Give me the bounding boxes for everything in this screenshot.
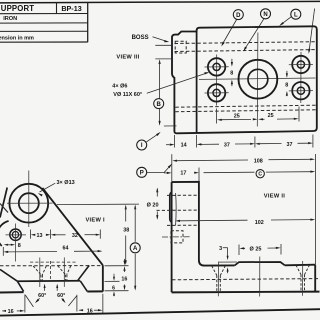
svg-text:14: 14 bbox=[181, 142, 187, 148]
hole bottom-right outer bbox=[292, 82, 309, 99]
svg-text:64: 64 bbox=[63, 246, 69, 252]
svg-text:N: N bbox=[263, 12, 267, 18]
svg-text:Ø 20: Ø 20 bbox=[147, 202, 159, 208]
small hole inner bbox=[12, 232, 18, 238]
right countersink hidden V bbox=[296, 265, 301, 275]
svg-text:32: 32 bbox=[72, 233, 78, 239]
hidden line lower 1 across body bbox=[175, 105, 316, 107]
hidden lines in wall bbox=[167, 194, 199, 196]
hole bottom-left outer bbox=[208, 84, 225, 101]
svg-text:A: A bbox=[133, 246, 138, 252]
leader from balloon L to top edge bbox=[281, 16, 292, 24]
hole bottom-right inner bbox=[297, 87, 304, 94]
svg-text:16: 16 bbox=[121, 277, 127, 283]
base bottom left segment bbox=[0, 291, 24, 293]
svg-text:VIEW II: VIEW II bbox=[264, 193, 285, 199]
svg-text:ension in mm: ension in mm bbox=[0, 36, 34, 42]
svg-text:25: 25 bbox=[268, 113, 274, 119]
horizontal centerline big circle bbox=[7, 202, 53, 204]
dim 16 extensions view I right bbox=[105, 265, 129, 267]
dim 102 bbox=[175, 220, 180, 222]
vertical centerline small circle bbox=[15, 224, 17, 262]
svg-text:37: 37 bbox=[224, 142, 230, 148]
hole bottom-left inner bbox=[213, 89, 220, 96]
hidden countersink V right (view I) bbox=[58, 266, 66, 275]
hole top-right outer bbox=[292, 56, 309, 73]
drawing frame bottom border bbox=[0, 309, 320, 315]
balloon D bbox=[233, 10, 243, 20]
dim 16 base height bbox=[124, 259, 126, 263]
centerline left countersink view II bbox=[217, 262, 219, 297]
boss root edge in wall bbox=[175, 193, 178, 225]
title block bbox=[87, 2, 89, 42]
dim 6 extension bbox=[105, 280, 120, 282]
dim 8 left (hole to axis) bbox=[231, 59, 233, 65]
vertical centerline big circle bbox=[28, 171, 30, 228]
svg-text:L: L bbox=[294, 12, 298, 18]
hole top-left outer bbox=[208, 58, 225, 75]
view II wall outline bbox=[172, 182, 235, 266]
raised pad dia25 bbox=[235, 262, 285, 265]
left edge line upper bbox=[0, 188, 7, 218]
vertical centerline left hole column bbox=[216, 55, 218, 106]
base bottom edge view II bbox=[172, 291, 320, 294]
centerline hole bottom-left bbox=[205, 92, 229, 94]
svg-text:8: 8 bbox=[230, 71, 233, 77]
leader from balloon N to hidden line bbox=[244, 18, 264, 49]
left notch lower diagonal bbox=[17, 281, 23, 291]
body-flange boundary edge bbox=[196, 32, 198, 134]
balloon P bbox=[137, 167, 147, 177]
svg-text:3: 3 bbox=[219, 246, 222, 252]
dim A line with balloon bbox=[134, 205, 136, 210]
dim 38 bbox=[125, 205, 127, 210]
svg-text:6: 6 bbox=[112, 286, 115, 292]
svg-text:37: 37 bbox=[287, 142, 293, 148]
dim 14 37 37 below view III bbox=[174, 135, 176, 148]
balloon I bbox=[137, 140, 147, 150]
hidden vertical edge at channel mid bbox=[50, 261, 52, 281]
centerline of counterbore bbox=[162, 236, 190, 238]
svg-text:8: 8 bbox=[18, 243, 21, 249]
centerline hole top-right bbox=[289, 63, 313, 65]
base bottom right segment bbox=[87, 290, 103, 292]
svg-text:4× Ø6: 4× Ø6 bbox=[112, 84, 127, 90]
balloon L bbox=[291, 9, 301, 19]
svg-text:IRON: IRON bbox=[3, 16, 17, 22]
left countersink hidden V bbox=[212, 266, 217, 276]
dim 6 bbox=[113, 274, 115, 279]
svg-text:D: D bbox=[236, 13, 241, 19]
centerline hole bottom-right bbox=[289, 90, 313, 92]
right notch upper diagonal bbox=[78, 265, 90, 280]
svg-text:BP-13: BP-13 bbox=[61, 4, 81, 13]
centerline hole top-left bbox=[205, 66, 229, 68]
svg-text:BOSS: BOSS bbox=[132, 35, 149, 41]
channel floor line bbox=[17, 280, 80, 283]
svg-text:102: 102 bbox=[255, 220, 264, 226]
svg-text:108: 108 bbox=[254, 158, 263, 164]
right notch lower diagonal bbox=[80, 281, 87, 292]
drawing frame top border bbox=[0, 1, 320, 3]
dim 8 right (axis to hole) bbox=[286, 71, 288, 76]
central hole inner circle bbox=[248, 69, 268, 89]
svg-text:25: 25 bbox=[234, 113, 240, 119]
svg-text:17: 17 bbox=[180, 170, 186, 176]
view I right edge bbox=[102, 265, 104, 291]
hole top-right inner bbox=[297, 61, 304, 68]
dim 16 bottom right bbox=[79, 309, 84, 311]
leader from BOSS label to boss bbox=[153, 37, 168, 42]
svg-text:16: 16 bbox=[8, 309, 14, 315]
svg-text:VIEW I: VIEW I bbox=[85, 217, 105, 223]
svg-text:3× Ø13: 3× Ø13 bbox=[57, 180, 75, 186]
small boss circle outer bbox=[10, 229, 21, 240]
dim 25 25 hole spacing bbox=[216, 109, 218, 124]
dim dia25 pad bbox=[238, 245, 240, 256]
leader from balloon P to wall corner bbox=[147, 171, 164, 173]
svg-text:B: B bbox=[157, 102, 162, 108]
svg-text:UPPORT: UPPORT bbox=[1, 4, 34, 13]
balloon C bbox=[256, 170, 264, 178]
hidden countersink top edge line bbox=[30, 261, 76, 263]
groove wall extension lines below base right bbox=[76, 295, 78, 312]
boss hidden counterbore rectangle bbox=[175, 41, 186, 53]
dim 16 bottom left bbox=[2, 310, 6, 312]
leader from balloon I bbox=[146, 133, 159, 142]
vertical centerline of central hole bbox=[256, 33, 259, 127]
hole top-left inner bbox=[213, 63, 220, 70]
hidden counterbore rect in wall bottom bbox=[171, 231, 183, 243]
centerline countersink left view I bbox=[39, 258, 41, 288]
horizontal centerline of view III bbox=[199, 78, 316, 79]
svg-text:Ø 25: Ø 25 bbox=[250, 246, 262, 252]
leader from 3x dia13 note bbox=[40, 183, 56, 192]
balloon A bbox=[130, 243, 140, 253]
balloon B bbox=[154, 99, 164, 109]
hidden line through base bbox=[172, 279, 320, 280]
hidden countersink V left (view I) bbox=[33, 266, 41, 275]
hidden base top line view I bbox=[0, 265, 101, 267]
gusset slope hypotenuse bbox=[42, 188, 102, 265]
boss bump on wall left bbox=[170, 192, 172, 222]
view III body outline with left boss flange bbox=[172, 26, 317, 133]
dim 38 extension top bbox=[57, 203, 139, 206]
svg-text:16: 16 bbox=[87, 308, 93, 314]
svg-text:13: 13 bbox=[37, 233, 43, 239]
svg-text:C: C bbox=[258, 171, 262, 177]
svg-text:38: 38 bbox=[123, 227, 129, 233]
svg-text:60°: 60° bbox=[57, 293, 65, 299]
base right edge bbox=[314, 265, 316, 292]
svg-text:VØ 11X 60°: VØ 11X 60° bbox=[113, 92, 142, 98]
svg-text:P: P bbox=[140, 170, 144, 176]
left edge short crossing line bbox=[0, 204, 8, 213]
leader from cropped balloon to right hole centerline bbox=[309, 9, 315, 52]
left notch upper diagonal bbox=[0, 269, 17, 281]
dim 64 bbox=[3, 251, 8, 253]
dim 17 wall thickness bbox=[198, 168, 200, 182]
centerline countersink right view I bbox=[63, 257, 65, 287]
leader from balloon D to hidden line bbox=[222, 19, 237, 45]
hidden line upper 1 across body bbox=[175, 42, 317, 44]
dim 13 and 32 on small circle centerline bbox=[30, 230, 32, 239]
base top edge right of pad bbox=[285, 264, 315, 267]
balloon N bbox=[261, 9, 271, 19]
hidden line lower 2 across body bbox=[175, 110, 316, 112]
svg-text:60°: 60° bbox=[38, 293, 46, 299]
dim 8 small circle bbox=[4, 244, 8, 246]
small boss lobe arc bbox=[0, 221, 9, 246]
dim 108 overall bbox=[171, 154, 173, 182]
vertical centerline right hole column bbox=[300, 52, 302, 103]
view II wall left edge and base left edge bbox=[171, 182, 173, 292]
hidden line upper 2 across body bbox=[175, 50, 317, 52]
groove wall extension lines below base left bbox=[24, 294, 26, 312]
big lobe outer circle bbox=[9, 184, 48, 223]
centerline pad view II bbox=[259, 257, 261, 297]
central hole outer circle bbox=[239, 60, 278, 99]
big hole dia13 bbox=[19, 193, 39, 213]
svg-text:8: 8 bbox=[285, 83, 288, 89]
dim B vertical (boss) bbox=[155, 58, 171, 60]
dim C with balloon bbox=[204, 171, 255, 174]
svg-text:VIEW III: VIEW III bbox=[116, 55, 139, 61]
centerline right countersink view II bbox=[302, 261, 304, 296]
right edge extension below base bbox=[102, 294, 104, 313]
leader from hole note to top-left hole bbox=[147, 73, 208, 94]
